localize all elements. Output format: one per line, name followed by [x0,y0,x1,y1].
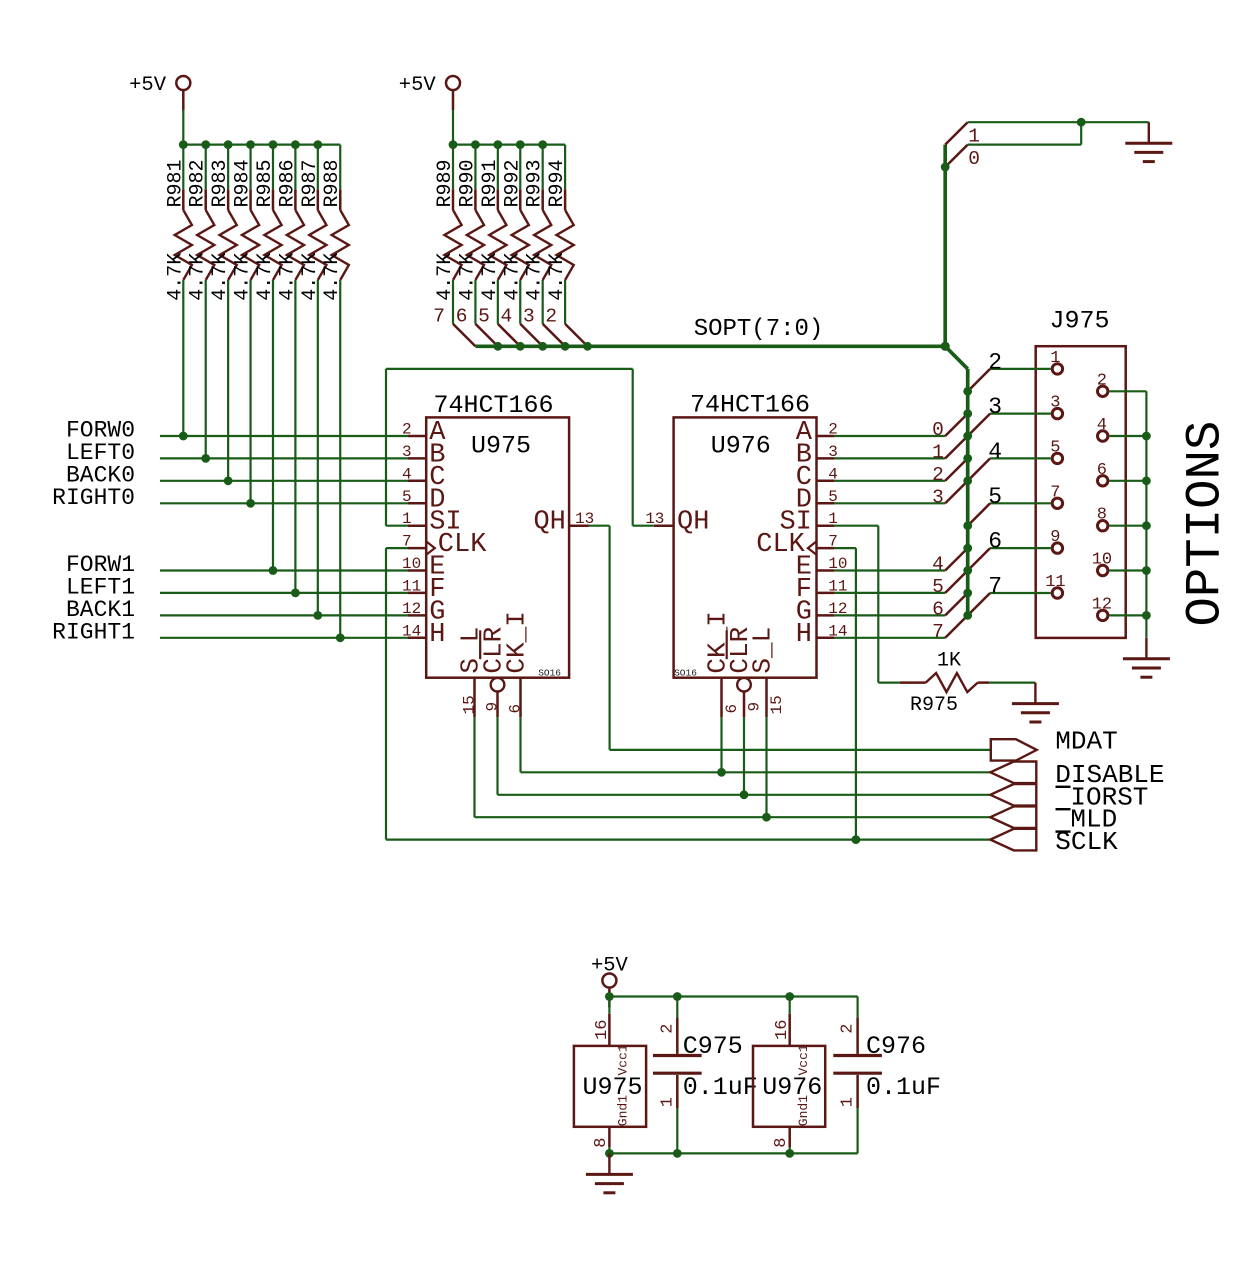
svg-text:12: 12 [1092,595,1112,614]
svg-text:R990: R990 [456,159,479,207]
svg-text:Gnd1: Gnd1 [796,1095,811,1126]
svg-text:SO16: SO16 [674,668,697,679]
svg-text:16: 16 [593,1020,612,1040]
junction [313,611,322,620]
svg-text:U976: U976 [762,1073,822,1102]
bus entry SOPT bit 6 (J975) [968,548,990,570]
svg-text:U976: U976 [711,432,771,461]
wire pin8 to gnd rail [789,1147,791,1153]
wire J975 pin5 [990,457,1051,459]
junction [224,476,233,485]
wire U976 SI [834,525,878,527]
wire to C975 [676,997,678,1018]
svg-text:2: 2 [1097,371,1107,390]
svg-text:R981: R981 [164,159,187,207]
resistor R975 1K [900,650,990,718]
svg-text:6: 6 [988,529,1002,555]
U976 pin 8 (Gnd1) [772,1095,811,1154]
junction [963,387,972,396]
svg-text:H: H [796,620,812,650]
bus entry SOPT bit 6 [932,593,968,620]
resistor R989 4.7K [434,145,462,324]
wire SCLK [386,838,990,840]
junction [538,342,547,351]
junction [605,1149,614,1158]
svg-text:6: 6 [1097,461,1107,480]
svg-text:2: 2 [545,305,557,327]
resistor R985 4.7K [254,145,282,571]
svg-text:R991: R991 [479,159,502,207]
wire C976 branch down [856,997,858,1018]
U976 pin 5 (D) [796,485,838,515]
+5V power symbol [399,74,460,110]
junction [449,140,458,149]
svg-text:6: 6 [456,305,468,327]
U975 pin 3 (B) [402,440,445,470]
wire pullup rail 2 [453,144,565,146]
svg-text:+5V: +5V [129,74,167,97]
bus entry SOPT bit 3 (J975) [968,414,990,436]
bus SOPT vertical riser [943,145,947,347]
junction [561,342,570,351]
svg-text:14: 14 [402,622,421,640]
svg-text:+5V: +5V [591,954,629,977]
junction [717,768,726,777]
bus entry SOPT bit 5 [932,570,968,597]
U975 pin 9 (CLR, active low) [479,627,509,718]
wire SOPT1 [834,457,945,459]
wire J975 pin4 to gnd rail [1109,435,1146,437]
wire J975 pin7 [990,502,1051,504]
junction [941,163,950,172]
svg-text:4: 4 [1097,416,1107,435]
wire LEFT1 [160,592,408,594]
wire RIGHT1 [160,637,408,639]
wire to U975 CLK [386,547,408,549]
junction [583,342,592,351]
U976 pin 7 (CLK) [756,530,838,560]
U976 pin 1 (SI) [779,508,837,538]
svg-text:8: 8 [1097,506,1107,525]
svg-text:R975: R975 [910,694,958,717]
bus entry bit 0 [945,145,968,167]
svg-text:12: 12 [402,600,421,618]
junction [941,342,950,351]
resistor R991 4.7K [479,145,507,324]
svg-text:U975: U975 [583,1073,643,1102]
svg-text:QH: QH [677,508,709,538]
svg-text:J975: J975 [1050,307,1110,336]
wire CK_I976 drop [720,717,722,772]
wire J975 ground rail [1145,391,1147,638]
wire J975 pin8 to gnd rail [1109,525,1146,527]
wire SI pulldown riser [877,526,879,683]
connector J975 body [1036,346,1126,638]
svg-text:5: 5 [1050,438,1060,457]
U975 pin 11 (F) [402,575,445,605]
input flag MLD (active low) [990,805,1117,835]
svg-text:Gnd1: Gnd1 [616,1095,631,1126]
junction [963,544,972,553]
bus entry SOPT bit 4 [501,305,543,346]
bus entry SOPT bit 6 [456,305,498,346]
svg-text:1: 1 [1050,349,1060,368]
U975 pin 5 (D) [402,485,445,515]
bus entry SOPT bit 3 [932,481,968,508]
junction [963,589,972,598]
J975 pin 2 [1097,371,1108,396]
bus entry SOPT bit 5 (J975) [968,503,990,525]
svg-text:R993: R993 [524,159,547,207]
wire J975 pin2 to gnd rail [1109,390,1146,392]
U975 pin 15 (S_L) [456,627,486,718]
svg-text:7: 7 [433,305,445,327]
input flag SCLK [990,827,1118,857]
junction [785,992,794,1001]
svg-text:R994: R994 [546,159,569,207]
svg-text:OPTIONS: OPTIONS [1178,421,1234,627]
capacitor C975 0.1uF [653,997,758,1154]
svg-text:2: 2 [932,464,944,486]
resistor R984 4.7K [232,145,260,504]
bus entry SOPT bit 1 [932,436,968,463]
wire CLR975 drop [496,717,498,795]
wire U975 QH out [589,525,610,527]
input flag IORST (active low) [990,782,1148,812]
U976 pin 13 (QH) [645,508,709,538]
junction [963,432,972,441]
U976 pin 15 (S_L) [748,627,786,718]
U976 power slot body [753,1046,825,1127]
wire J975 pin3 [990,413,1051,415]
svg-text:H: H [429,620,445,650]
svg-text:Vcc1: Vcc1 [616,1044,631,1075]
U975 pin 13 (QH) [533,508,594,538]
svg-text:R987: R987 [299,159,322,207]
svg-text:74HCT166: 74HCT166 [690,391,810,420]
wire C976 to gnd rail [856,1108,858,1153]
svg-text:4: 4 [988,439,1002,465]
bus diagonal jog [945,346,968,369]
wire SCLK riser right [855,548,857,840]
wire U976 QH out [633,525,654,527]
input flag DISABLE [990,760,1164,790]
bus entry SOPT bit 7 [932,615,968,642]
svg-text:10: 10 [402,555,421,573]
svg-text:5: 5 [988,484,1002,510]
ground (J975) [1123,638,1170,677]
junction [963,521,972,530]
junction [201,140,210,149]
capacitor C976 0.1uF [833,1018,941,1154]
junction [673,1149,682,1158]
wire IORST [498,794,991,796]
U975 pin 14 (H) [402,620,445,650]
svg-text:QH: QH [533,508,565,538]
svg-text:6: 6 [507,704,525,714]
U976 pin 11 (F) [796,575,848,605]
svg-text:7: 7 [932,621,944,643]
bus entry SOPT bit 4 (J975) [968,458,990,480]
junction [336,633,345,642]
wire QH976 riser [632,369,634,526]
ground (R975) [1012,683,1059,722]
svg-text:R988: R988 [321,159,344,207]
svg-text:15: 15 [461,695,479,714]
svg-text:R983: R983 [209,159,232,207]
svg-text:0: 0 [968,148,980,170]
IC U976 74HCT166 body [674,417,817,677]
svg-text:+5V: +5V [399,74,437,97]
wire pin8 to gnd rail [608,1147,610,1153]
wire SI riser [385,369,387,526]
wire S_L976 drop [765,717,767,817]
junction [269,566,278,575]
svg-text:5: 5 [932,576,944,598]
svg-text:SO16: SO16 [538,668,561,679]
svg-text:15: 15 [768,695,786,714]
svg-text:7: 7 [1050,483,1060,502]
svg-text:3: 3 [402,443,412,461]
J975 pin 8 [1097,506,1108,531]
svg-text:5: 5 [402,488,412,506]
svg-text:1: 1 [839,1097,858,1107]
svg-text:2: 2 [402,421,412,439]
junction [1142,521,1151,530]
svg-text:3: 3 [932,486,944,508]
svg-text:1: 1 [932,441,944,463]
ground (power) [586,1153,633,1192]
svg-text:2: 2 [988,349,1002,375]
junction [291,589,300,598]
wire ground rail (power) [609,1152,857,1154]
svg-text:RIGHT1: RIGHT1 [52,619,135,645]
junction [673,992,682,1001]
resistor R986 4.7K [276,145,304,593]
junction [963,454,972,463]
U976 pin 4 (C) [796,463,838,493]
wire to U975 SI [386,525,408,527]
resistor R987 4.7K [299,145,327,616]
U975 pin 4 (C) [402,463,445,493]
wire +5V to pullup rail 1 [182,110,184,145]
bus entry SOPT bit 2 (J975) [968,369,990,391]
U976 pin 14 (H) [796,620,848,650]
svg-text:3: 3 [523,305,535,327]
junction [493,342,502,351]
svg-text:9: 9 [1050,528,1060,547]
junction [179,140,188,149]
svg-text:8: 8 [772,1138,791,1148]
svg-text:4: 4 [501,305,513,327]
output flag MDAT [991,727,1118,761]
J975 pin 12 [1092,595,1112,620]
resistor R990 4.7K [456,145,484,324]
U976 pin 12 (G) [796,597,848,627]
U975 pin 12 (G) [402,597,445,627]
bus entry SOPT bit 7 [433,305,475,346]
wire MLD [475,816,991,818]
svg-text:0: 0 [932,419,944,441]
U975 pin 10 (E) [402,553,445,583]
U975 pin 8 (Gnd1) [592,1095,631,1154]
svg-text:R992: R992 [501,159,524,207]
svg-text:MLD: MLD [1070,805,1117,835]
junction [605,992,614,1001]
U975 pin 16 (Vcc1) [593,997,631,1076]
svg-text:11: 11 [402,577,421,595]
+5V power symbol [591,954,629,1007]
svg-text:R989: R989 [434,159,457,207]
svg-text:6: 6 [723,704,741,714]
wire SOPT5 [834,592,945,594]
wire SOPT7 [834,637,945,639]
junction [493,140,502,149]
wire SOPT6 [834,614,945,616]
bus entry SOPT bit 4 [932,548,968,575]
junction [246,140,255,149]
svg-text:4: 4 [932,554,944,576]
junction [740,790,749,799]
wire RIGHT0 [160,502,408,504]
wire LEFT0 [160,457,408,459]
bus entry SOPT bit 3 [523,305,565,346]
svg-text:C975: C975 [683,1032,743,1061]
J975 pin 10 [1092,551,1112,576]
U976 pin 16 (Vcc1) [773,997,811,1076]
U975 pin 2 (A) [402,418,446,448]
wire MDAT [610,749,991,751]
+5V power symbol [129,74,190,110]
U976 pin 10 (E) [796,553,848,583]
J975 pin 1 [1050,349,1062,374]
junction [471,140,480,149]
U975 pin 6 (CK_I) [502,611,532,717]
svg-text:10: 10 [1092,551,1112,570]
bus entry bit 1 [945,122,968,144]
junction [963,476,972,485]
svg-text:S_L: S_L [748,627,778,674]
wire SOPT2 [834,480,945,482]
J975 pin 3 [1050,394,1062,419]
wire FORW0 [160,435,408,437]
svg-text:9: 9 [746,702,764,712]
wire FORW1 [160,569,408,571]
wire bit1 to ground [968,121,1149,123]
ground (top right) [1125,122,1172,161]
svg-text:74HCT166: 74HCT166 [434,391,554,420]
svg-text:3: 3 [1050,394,1060,413]
svg-text:SOPT(7:0): SOPT(7:0) [694,316,824,343]
junction [516,342,525,351]
svg-text:U975: U975 [471,432,531,461]
junction [246,499,255,508]
bus entry SOPT bit 7 (J975) [968,593,990,615]
J975 pin 5 [1050,438,1062,463]
resistor R983 4.7K [209,145,237,481]
junction [201,454,210,463]
wire to U976 CLK [834,547,856,549]
svg-text:R982: R982 [187,159,210,207]
junction [963,409,972,418]
svg-text:8: 8 [592,1138,611,1148]
junction [179,432,188,441]
U975 power slot body [574,1046,646,1127]
wire C975 to gnd rail [676,1108,678,1153]
bus SOPT(7:0) horizontal [475,344,945,348]
svg-text:Vcc1: Vcc1 [796,1044,811,1075]
wire bit0 [968,144,1081,146]
junction [963,611,972,620]
U976 pin 6 (CK_I) [703,611,741,717]
J975 pin 7 [1050,483,1062,508]
wire R975 to ground [989,681,1035,683]
junction [762,813,771,822]
J975 pin 4 [1097,416,1108,441]
wire to R975 [878,681,899,683]
resistor R981 4.7K [164,145,192,436]
wire to pin16 [789,997,791,1014]
svg-text:4: 4 [402,465,412,483]
J975 pin 11 [1045,573,1065,598]
svg-text:MDAT: MDAT [1055,727,1117,757]
junction [785,1149,794,1158]
svg-text:R986: R986 [276,159,299,207]
wire DISABLE [521,771,991,773]
wire QH976 to SI975 [386,368,633,370]
bus entry SOPT bit 0 [932,414,968,441]
wire BACK0 [160,480,408,482]
resistor R988 4.7K [321,145,349,638]
resistor R982 4.7K [187,145,215,459]
svg-text:0.1uF: 0.1uF [683,1073,758,1102]
wire bit0 riser [1080,122,1082,144]
junction [1142,432,1151,441]
junction [1077,118,1086,127]
svg-text:16: 16 [773,1020,792,1040]
junction [1142,476,1151,485]
J975 pin 9 [1050,528,1062,553]
wire SOPT3 [834,502,945,504]
junction [1142,611,1151,620]
bus vertical (right) [966,369,970,616]
wire J975 pin1 [990,368,1051,370]
U976 pin 2 (A) [796,418,838,448]
svg-text:5: 5 [478,305,490,327]
bus entry SOPT bit 5 [478,305,520,346]
svg-text:R984: R984 [232,159,255,207]
wire SOPT0 [834,435,945,437]
wire S_L975 drop [473,717,475,817]
wire +5V to pullup rail 2 [452,110,454,145]
svg-text:RIGHT0: RIGHT0 [52,485,135,511]
resistor R994 4.7K [546,145,574,324]
wire J975 pin6 to gnd rail [1109,480,1146,482]
bus entry SOPT bit 2 [932,458,968,485]
junction [269,140,278,149]
junction [224,140,233,149]
U975 pin 7 (CLK) [402,530,487,560]
svg-text:R985: R985 [254,159,277,207]
resistor R993 4.7K [524,145,552,324]
wire QH to MDAT riser [608,526,610,750]
svg-text:2: 2 [658,1023,677,1033]
wire pullup rail 1 [183,144,340,146]
svg-text:2: 2 [839,1023,858,1033]
wire CLR976 drop [743,717,745,795]
wire SOPT4 [834,569,945,571]
wire CK_I975 drop [519,717,521,772]
